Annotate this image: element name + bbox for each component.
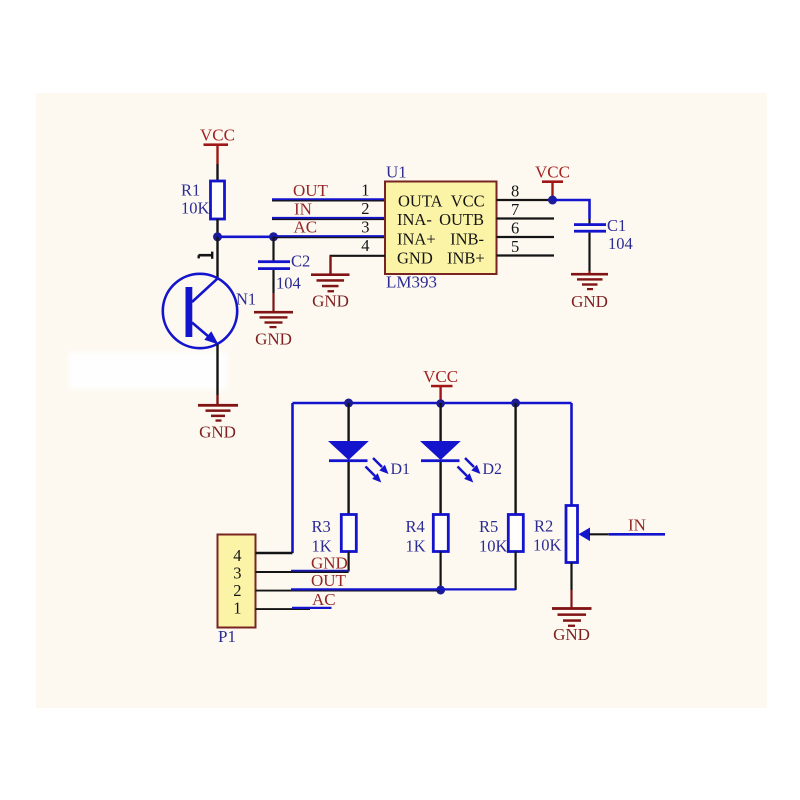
resistor R4 — [433, 515, 448, 552]
svg-text:R1: R1 — [181, 181, 200, 200]
svg-text:104: 104 — [608, 234, 633, 253]
svg-text:3: 3 — [233, 564, 241, 583]
wire transistor emitter to ground — [216, 345, 218, 405]
label R5 — [479, 517, 498, 536]
svg-text:IN: IN — [294, 200, 312, 219]
wire node A to transistor collector — [216, 237, 218, 279]
value LM393 — [386, 273, 437, 292]
svg-text:10K: 10K — [181, 199, 210, 218]
wire OUT to U1 pin 1 — [272, 199, 385, 200]
svg-text:INB+: INB+ — [447, 248, 485, 267]
value 1K (R3) — [312, 537, 332, 556]
svg-text:VCC: VCC — [451, 191, 485, 210]
svg-text:D1: D1 — [391, 461, 411, 478]
pin number 2 — [361, 199, 369, 218]
capacitor C1 — [574, 223, 606, 232]
svg-text:8: 8 — [511, 182, 519, 201]
svg-text:VCC: VCC — [200, 126, 235, 145]
wire D1 cathode to R3 — [347, 462, 349, 515]
wire C2 to ground — [272, 270, 274, 311]
U1 pin text INB- — [450, 230, 484, 249]
svg-text:GND: GND — [199, 423, 236, 442]
svg-text:GND: GND — [397, 248, 433, 267]
svg-text:GND: GND — [553, 625, 590, 644]
svg-text:LM393: LM393 — [386, 273, 437, 292]
U1 pin 8 wire to VCC node — [497, 199, 553, 201]
svg-text:104: 104 — [276, 274, 301, 293]
U1 pin 6 stub — [497, 236, 555, 238]
svg-text:1K: 1K — [406, 537, 426, 556]
wire VCC to R1 — [216, 164, 218, 181]
capacitor C2 — [258, 260, 290, 270]
ground (transistor emitter) — [198, 404, 238, 442]
wire rail to D1 anode — [347, 403, 349, 441]
svg-text:OUTB: OUTB — [439, 210, 484, 229]
P1 pin 2 wire (OUT row) — [256, 589, 516, 590]
pin number 4 — [361, 236, 369, 255]
U1 pin 5 stub — [497, 254, 555, 256]
value 104 (C1) — [608, 234, 633, 253]
transistor N1 — [163, 274, 237, 348]
resistor R3 — [341, 515, 356, 552]
svg-text:P1: P1 — [218, 627, 236, 646]
svg-text:1: 1 — [361, 181, 369, 200]
value 1K (R4) — [406, 537, 426, 556]
U1 pin text GND — [397, 248, 433, 267]
power VCC (right) — [535, 163, 570, 201]
wire R5 to OUT row — [514, 552, 516, 591]
LED D1 — [328, 441, 389, 483]
resistor R1 — [211, 181, 225, 219]
P1 pin 4 wire — [256, 552, 293, 554]
junction rail/VCC — [436, 399, 445, 408]
value 104 (C2) — [276, 274, 301, 293]
net label IN — [294, 200, 312, 219]
P1 pin 3 wire (GND row) — [256, 571, 349, 572]
P1 pin number 3 — [233, 564, 241, 583]
svg-text:C1: C1 — [607, 216, 626, 235]
label R3 — [312, 517, 331, 536]
ground (U1 pin 4) — [311, 273, 350, 310]
wire node B to C2 — [272, 237, 274, 261]
wire IN to U1 pin 2 — [272, 218, 385, 219]
U1 pin text INA- — [397, 210, 432, 229]
label R4 — [406, 517, 425, 536]
wire R4 to OUT row — [440, 552, 442, 591]
wire stub into C1 — [588, 219, 590, 224]
value 10K (R5) — [479, 537, 508, 556]
svg-text:GND: GND — [312, 292, 349, 311]
junction rail/D1 — [344, 399, 353, 408]
P1 pin number 4 — [233, 546, 241, 565]
LED D2 — [420, 441, 481, 483]
wire rail to R5 — [514, 403, 516, 515]
resistor R5 — [508, 515, 523, 552]
svg-text:R4: R4 — [406, 517, 425, 536]
ground (C2) — [254, 311, 293, 349]
net label GND (row) — [311, 554, 348, 573]
ground (C1) — [571, 273, 608, 311]
wire R3 to GND row — [348, 552, 350, 572]
pin number 6 — [511, 219, 519, 238]
svg-text:10K: 10K — [479, 537, 508, 556]
label D1 — [391, 461, 411, 478]
value 10K (R2) — [533, 536, 562, 555]
svg-text:2: 2 — [361, 199, 369, 218]
pin number 5 — [511, 237, 519, 256]
svg-text:INA+: INA+ — [397, 230, 436, 249]
pin number 7 — [511, 200, 519, 219]
svg-text:R5: R5 — [479, 517, 498, 536]
svg-text:N1: N1 — [236, 290, 256, 309]
junction rail/R5 — [511, 399, 520, 408]
svg-text:AC: AC — [312, 590, 336, 609]
svg-text:VCC: VCC — [535, 163, 570, 182]
svg-text:U1: U1 — [386, 163, 407, 182]
U1 pin text OUTB — [439, 210, 484, 229]
net label AC — [294, 218, 318, 237]
pin number 1 — [361, 181, 369, 200]
P1 pin 1 wire (AC row) — [256, 608, 332, 609]
net label AC (row) — [312, 590, 336, 609]
connector P1 — [218, 535, 256, 628]
value 10K (R1) — [181, 199, 210, 218]
svg-text:VCC: VCC — [423, 367, 458, 386]
wire rail to D2 anode — [439, 403, 441, 441]
label C1 — [607, 216, 626, 235]
svg-text:GND: GND — [571, 292, 608, 311]
svg-text:INB-: INB- — [450, 230, 484, 249]
label R2 — [534, 517, 553, 536]
wire rail right leg to R2 — [570, 403, 573, 506]
svg-text:6: 6 — [511, 219, 519, 238]
svg-text:5: 5 — [511, 237, 519, 256]
pin number 3 — [361, 218, 369, 237]
junction node A — [213, 232, 222, 241]
wire VCC node to C1 — [553, 200, 590, 219]
svg-text:3: 3 — [361, 218, 369, 237]
svg-text:R2: R2 — [534, 517, 553, 536]
wire rail left leg to P1 pin 4 — [291, 403, 294, 553]
net label OUT — [293, 181, 329, 200]
transistor pin number 1 (rotated) — [199, 252, 213, 259]
P1 pin number 1 — [233, 599, 241, 618]
svg-text:AC: AC — [294, 218, 318, 237]
net label IN (bottom) — [628, 516, 646, 535]
label R1 — [181, 181, 200, 200]
power VCC (bottom) — [423, 367, 458, 403]
svg-text:INA-: INA- — [397, 210, 432, 229]
U1 pin text INA+ — [397, 230, 436, 249]
P1 pin number 2 — [233, 581, 241, 600]
svg-text:1: 1 — [233, 599, 241, 618]
net label OUT (row) — [311, 571, 347, 590]
svg-text:OUT: OUT — [293, 181, 329, 200]
label P1 — [218, 627, 236, 646]
svg-text:GND: GND — [255, 330, 292, 349]
wire node B to U1 pin 3 — [274, 236, 386, 237]
wire R1 to node A — [216, 219, 218, 237]
svg-text:GND: GND — [311, 554, 348, 573]
wire VCC rail — [293, 402, 572, 405]
label N1 — [236, 290, 256, 309]
U1 pin text INB+ — [447, 248, 485, 267]
U1 pin 4 wire to ground — [330, 256, 386, 274]
potentiometer R2 — [566, 506, 590, 563]
label D2 — [483, 461, 503, 478]
svg-text:2: 2 — [233, 581, 241, 600]
wire D2 cathode to R4 — [439, 462, 441, 515]
U1 pin text OUTA — [398, 191, 443, 210]
junction node B — [269, 232, 278, 241]
svg-text:10K: 10K — [533, 536, 562, 555]
op-amp U1 (LM393 body) — [385, 182, 497, 275]
svg-text:4: 4 — [233, 546, 241, 565]
svg-text:IN: IN — [628, 516, 646, 535]
label U1 — [386, 163, 407, 182]
wire R2 to ground — [570, 563, 572, 609]
wire R2 wiper to IN — [589, 533, 665, 535]
wire C1 to ground — [588, 233, 590, 274]
U1 pin text VCC — [451, 191, 485, 210]
svg-text:C2: C2 — [291, 252, 310, 271]
label C2 — [291, 252, 310, 271]
pin number 8 — [511, 182, 519, 201]
ground (R2) — [552, 607, 592, 644]
junction node VCC/C1 — [548, 196, 557, 205]
svg-text:R3: R3 — [312, 517, 331, 536]
power VCC (top left) — [200, 126, 235, 165]
svg-text:OUTA: OUTA — [398, 191, 443, 210]
U1 pin 7 stub — [497, 217, 555, 219]
svg-text:7: 7 — [511, 200, 519, 219]
wire node A to node B (AC net) — [218, 236, 274, 239]
svg-text:D2: D2 — [483, 461, 503, 478]
junction R4/OUT row — [436, 586, 445, 595]
svg-text:OUT: OUT — [311, 571, 347, 590]
svg-text:4: 4 — [361, 236, 369, 255]
